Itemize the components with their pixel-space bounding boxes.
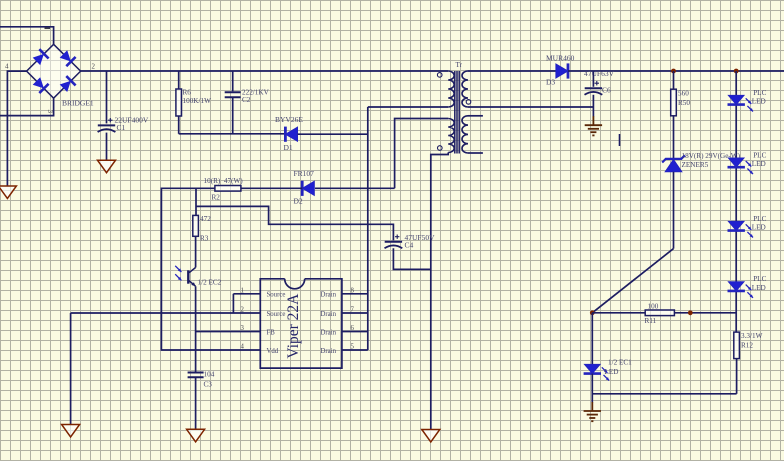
svg-text:R2: R2	[212, 193, 221, 201]
wire snubber to D1 cathode	[179, 133, 286, 135]
wire R12 to bottom return	[736, 359, 738, 394]
svg-text:Drain: Drain	[321, 348, 337, 355]
junction feedback node	[590, 310, 595, 315]
svg-text:2: 2	[241, 307, 245, 314]
transformer aux winding (bottom-left)	[448, 119, 454, 153]
wire primary bottom to drain bus	[368, 106, 448, 108]
polarity dot primary	[437, 73, 442, 78]
svg-text:Tr: Tr	[456, 61, 463, 69]
wire drain bus vertical	[367, 107, 369, 350]
bridge pin 1 label (-)	[45, 27, 51, 29]
wire rail to C1	[106, 71, 108, 123]
wire opto emitter down to C3	[195, 286, 197, 371]
capacitor C1 22UF400V	[98, 125, 116, 132]
svg-text:BYV26E: BYV26E	[275, 115, 303, 124]
svg-text:2: 2	[92, 62, 96, 70]
svg-text:R6: R6	[183, 88, 192, 96]
wire bridge pin3 to left edge	[0, 98, 54, 115]
wire aux winding bottom to ground	[431, 153, 448, 430]
resistor R12 3.3/1W	[734, 332, 740, 359]
polarity dot secondary	[466, 100, 471, 105]
svg-text:LED: LED	[752, 98, 766, 106]
bridge rectifier BRIDGE1 diamond	[27, 44, 81, 98]
LED PLC (1)	[728, 95, 754, 111]
svg-text:PLC: PLC	[753, 151, 766, 159]
wire bridge pin4 to ground	[7, 71, 26, 186]
svg-text:D2: D2	[294, 196, 303, 205]
svg-text:LED: LED	[752, 224, 766, 232]
resistor R11 100	[645, 310, 674, 316]
svg-text:LED: LED	[605, 368, 619, 376]
wire secondary top to D3	[468, 70, 556, 72]
transformer Tr core	[455, 71, 459, 154]
svg-text:222/1KV: 222/1KV	[242, 88, 270, 96]
op-amp U1 Viper 22A IC body	[260, 279, 342, 368]
wire pin 1 stub	[233, 293, 260, 295]
wire output rail	[568, 70, 784, 72]
wire C6 to ground	[592, 95, 594, 117]
bridge diode bottom-right (3 to 2)	[60, 76, 76, 92]
wire R6 to snubber bottom	[178, 116, 180, 134]
LED 1/2 EC1 (optocoupler LED)	[584, 364, 610, 380]
wire D2 cathode to R2	[241, 187, 302, 189]
svg-text:104: 104	[204, 371, 215, 379]
wire R2 node to R3	[195, 188, 197, 215]
wire C3 to ground	[195, 377, 197, 429]
wire node to R11	[592, 312, 645, 314]
wire pin 6 stub	[342, 331, 368, 333]
wire FB pin 3	[196, 331, 261, 333]
junction LED branch	[734, 69, 739, 74]
svg-text:LED: LED	[752, 160, 766, 168]
wire Vdd node to C4	[196, 206, 393, 240]
resistor R3 472	[193, 215, 199, 236]
wire HV rail to transformer primary	[81, 70, 449, 72]
wire R2 to Vdd pin 4	[161, 188, 260, 350]
capacitor C4 47UF50V	[385, 242, 403, 249]
svg-text:Drain: Drain	[321, 311, 337, 318]
transformer primary winding (top-left)	[448, 71, 454, 107]
ground (AC side)	[0, 186, 16, 199]
svg-text:C4: C4	[405, 240, 414, 249]
wire spare winding stub bottom	[468, 152, 483, 154]
svg-text:R50: R50	[678, 99, 690, 107]
wire source ground riser	[70, 313, 72, 425]
svg-text:C1: C1	[117, 123, 126, 132]
svg-text:Drain: Drain	[321, 329, 337, 336]
wire aux to D2 anode	[315, 187, 395, 189]
polarity dot aux	[438, 146, 443, 151]
svg-text:FB: FB	[267, 329, 276, 336]
LED PLC (2)	[728, 158, 754, 174]
wire opto LED to ground	[591, 374, 593, 403]
stray vertical mark	[619, 134, 621, 146]
junction R50 branch	[671, 69, 676, 74]
svg-text:D3: D3	[546, 77, 555, 86]
wire pin 8 stub	[342, 293, 368, 295]
svg-text:BRIDGE1: BRIDGE1	[62, 99, 94, 108]
svg-text:LED: LED	[752, 284, 766, 292]
svg-text:1: 1	[241, 287, 244, 294]
wire aux winding top to D2 anode riser	[395, 119, 449, 189]
svg-text:C3: C3	[204, 381, 213, 389]
capacitor C2 222/1KV	[225, 92, 241, 97]
zener diode ZENER5	[662, 155, 685, 172]
svg-text:MUR460: MUR460	[546, 53, 575, 62]
ground (C3)	[187, 429, 205, 442]
svg-text:Vdd: Vdd	[267, 348, 279, 355]
svg-text:R3: R3	[200, 234, 209, 242]
svg-text:PLC: PLC	[753, 275, 766, 283]
wire LED string column	[735, 71, 737, 332]
transformer spare winding (bottom-right)	[462, 116, 468, 153]
svg-text:C6: C6	[602, 86, 611, 95]
svg-text:Source: Source	[267, 292, 286, 299]
wire C1 to ground	[106, 133, 108, 161]
wire zener to diagonal	[673, 172, 675, 249]
svg-text:1/2 EC1: 1/2 EC1	[608, 359, 632, 367]
wire R3 to opto transistor collector	[195, 236, 197, 267]
bridge diode top-right (1 to 2)	[60, 50, 76, 66]
wire diagonal to feedback node	[592, 249, 673, 313]
junction on R11 wire	[688, 310, 693, 315]
transformer secondary winding (top-right)	[462, 71, 468, 107]
wire source pins to ground	[71, 312, 261, 314]
wire D1 anode to drain bus	[298, 133, 368, 135]
svg-text:ZENER5: ZENER5	[682, 161, 709, 169]
wire rail to R6	[178, 71, 180, 89]
svg-text:10(R) 47(W): 10(R) 47(W)	[204, 177, 244, 185]
wire AC input top-left	[0, 27, 54, 45]
svg-text:PLC: PLC	[753, 89, 766, 97]
svg-text:PLC: PLC	[753, 215, 766, 223]
svg-text:560: 560	[678, 89, 689, 97]
resistor R50 560	[671, 89, 677, 116]
wire R50 to zener	[673, 116, 675, 159]
svg-text:FR107: FR107	[294, 169, 315, 178]
svg-text:47UF63V: 47UF63V	[584, 69, 615, 78]
capacitor C6 47UF63V	[585, 88, 603, 95]
wire pin 7 stub	[342, 312, 368, 314]
wire rail to C6	[592, 71, 594, 87]
wire spare winding stub top	[468, 115, 483, 117]
svg-text:100K/1W: 100K/1W	[183, 97, 212, 105]
resistor R6 100K/1W	[176, 89, 182, 116]
wire node to opto LED	[591, 313, 593, 365]
ground (source)	[62, 425, 80, 438]
svg-text:Source: Source	[267, 311, 286, 318]
capacitor C3 104	[188, 373, 204, 378]
earth ground (secondary)	[585, 116, 602, 135]
svg-text:C2: C2	[242, 96, 251, 104]
svg-text:3.3/1W: 3.3/1W	[741, 332, 763, 340]
ground (C1)	[98, 160, 116, 173]
wire C4 to ground line	[393, 248, 430, 269]
wire rail to C2	[232, 71, 234, 91]
bridge diode bottom-left (4 to 3)	[33, 77, 49, 93]
svg-text:R11: R11	[645, 317, 657, 325]
opto light arrows	[175, 266, 181, 272]
svg-text:100: 100	[648, 302, 659, 310]
ground (aux winding)	[422, 430, 440, 443]
wire secondary return	[468, 106, 593, 108]
wire rail to R50	[673, 71, 675, 89]
LED PLC (3)	[728, 221, 754, 237]
diode D1 BYV26E	[285, 127, 297, 142]
diode D3 MUR460	[556, 63, 568, 78]
wire C2 to snubber bottom	[232, 97, 234, 134]
svg-text:472: 472	[200, 215, 211, 223]
resistor R2 10(R) 47(W)	[215, 186, 241, 192]
svg-text:3: 3	[241, 325, 245, 332]
svg-text:1/2 EC2: 1/2 EC2	[198, 279, 222, 287]
svg-text:Viper 22A: Viper 22A	[285, 293, 302, 359]
svg-text:Drain: Drain	[321, 292, 337, 299]
svg-text:4: 4	[5, 62, 9, 70]
svg-text:4: 4	[241, 344, 245, 351]
wire pin 5 stub	[342, 349, 368, 351]
LED PLC (4)	[728, 282, 754, 298]
diode D2 FR107	[302, 181, 314, 196]
wire R11 to LED column	[674, 312, 736, 314]
wire pin1-pin2 tie	[232, 294, 234, 313]
bridge diode top-left (4 to 1)	[33, 49, 49, 65]
svg-text:D1: D1	[284, 143, 293, 152]
svg-text:R12: R12	[741, 341, 753, 349]
wire bottom return	[592, 393, 736, 395]
earth ground (bottom right)	[584, 402, 601, 421]
transistor 1/2 EC2 (optocoupler phototransistor)	[188, 268, 195, 287]
